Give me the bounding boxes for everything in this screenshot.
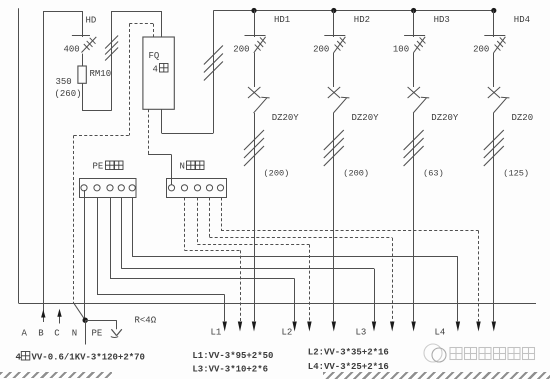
breaker blade HD1 xyxy=(254,97,270,113)
wire: HD switch stem xyxy=(82,11,84,37)
node HD1 bus tap xyxy=(251,8,256,13)
svg-text:DZ20: DZ20 xyxy=(512,113,534,123)
svg-text:L2:VV-3*35+2*16: L2:VV-3*35+2*16 xyxy=(308,347,389,357)
conductor slashes HD3 xyxy=(404,130,424,166)
svg-text:FQ: FQ xyxy=(149,51,160,61)
label DZ20 xyxy=(512,113,534,123)
wire: HD2 stem upper xyxy=(333,11,335,38)
svg-text:N: N xyxy=(180,162,185,172)
svg-text:DZ20Y: DZ20Y xyxy=(431,113,459,123)
wire: HD3 feeder stem xyxy=(413,113,415,321)
svg-text:350: 350 xyxy=(56,77,72,87)
disconnect switch HD1 xyxy=(245,36,266,53)
label N xyxy=(72,329,77,339)
svg-text:C: C xyxy=(54,329,60,339)
PE wire to L4 xyxy=(132,198,460,332)
breaker blade HD3 xyxy=(413,97,429,113)
breaker blade HD2 xyxy=(333,97,349,113)
supply arrow C xyxy=(57,309,61,324)
svg-text:VV-0.6/1KV-3*120+2*70: VV-0.6/1KV-3*120+2*70 xyxy=(32,353,145,363)
feeder arrow HD4 xyxy=(492,322,496,332)
wire: bond to earth xyxy=(85,320,116,329)
breaker contact X HD4 xyxy=(488,87,500,98)
wire: phase B riser xyxy=(41,11,45,322)
svg-text:4: 4 xyxy=(153,65,158,75)
node HD2 bus tap xyxy=(331,8,336,13)
fuse RM10 xyxy=(78,66,86,83)
label B xyxy=(38,329,44,339)
wire: HD3 stem mid xyxy=(413,53,415,87)
cable spec L1 xyxy=(192,351,273,361)
svg-text:200: 200 xyxy=(233,45,249,55)
cable spec L3 xyxy=(192,364,268,374)
label HD xyxy=(86,16,97,26)
value 200 xyxy=(313,45,329,55)
svg-text:100: 100 xyxy=(393,45,409,55)
distribution box FQ xyxy=(143,37,174,109)
node HD3 bus tap xyxy=(411,8,416,13)
label L1 xyxy=(211,328,222,338)
value 200 xyxy=(473,45,489,55)
wire: FQ neutral to N busbar xyxy=(148,109,172,185)
label HD1 xyxy=(274,15,290,25)
wire: top-left box top segment xyxy=(43,11,82,13)
feeder arrow HD2 xyxy=(332,322,336,332)
wire: HD2 feeder stem xyxy=(333,113,335,321)
PE wire to L1 xyxy=(97,198,227,332)
label L3 xyxy=(356,328,367,338)
wire: HD3 stem upper xyxy=(413,11,415,38)
node HD4 bus tap xyxy=(491,8,496,13)
bus: main horizontal bus xyxy=(213,10,493,12)
N wire to L3 (dashed) xyxy=(210,198,395,332)
wire: switch to fuse xyxy=(82,54,84,66)
label DZ20Y xyxy=(272,113,300,123)
wire: enclosure bottom rail xyxy=(19,303,536,305)
svg-text:N: N xyxy=(72,329,77,339)
feeder arrow HD3 xyxy=(411,322,415,332)
svg-text:HD2: HD2 xyxy=(354,15,370,25)
svg-text:L3: L3 xyxy=(356,328,367,338)
conductor slashes HD4 xyxy=(484,130,504,166)
earth electrode symbol xyxy=(111,329,122,337)
wire: enclosure left border xyxy=(18,8,20,303)
value (125) xyxy=(503,169,529,179)
wire: HD2 stem mid xyxy=(333,53,335,87)
value 200 xyxy=(233,45,249,55)
svg-text:HD3: HD3 xyxy=(434,15,450,25)
disconnect switch HD xyxy=(72,36,96,53)
PE wire to L3 xyxy=(121,198,376,332)
wire: bond diagonal N-PE xyxy=(74,303,85,320)
label HD2 xyxy=(354,15,370,25)
watermark logo xyxy=(424,344,535,362)
svg-text:L3:VV-3*10+2*6: L3:VV-3*10+2*6 xyxy=(192,364,268,374)
label DZ20Y xyxy=(352,113,380,123)
busbar PE xyxy=(80,179,137,198)
wire: HD1 stem mid xyxy=(254,53,256,87)
svg-text:B: B xyxy=(38,329,44,339)
wire: dashed N conductor (FQ to bond) xyxy=(74,24,154,304)
label DZ20Y xyxy=(431,113,459,123)
label HD3 xyxy=(434,15,450,25)
svg-text:RM10: RM10 xyxy=(90,69,112,79)
feeder arrow HD1 xyxy=(252,322,256,332)
svg-text:DZ20Y: DZ20Y xyxy=(352,113,380,123)
svg-text:L1: L1 xyxy=(211,328,222,338)
svg-text:PE: PE xyxy=(93,162,104,172)
label L4 xyxy=(435,328,446,338)
label L2 xyxy=(282,328,293,338)
wire: FQ drop from top xyxy=(161,11,163,37)
value (200) xyxy=(343,169,369,179)
disconnect switch HD3 xyxy=(404,36,425,53)
conductor slashes (left riser) xyxy=(105,36,118,61)
svg-text:(200): (200) xyxy=(264,169,290,179)
N wire to L4 (dashed) xyxy=(221,198,481,332)
wire: HD1 stem upper xyxy=(254,11,256,38)
svg-text:R<4Ω: R<4Ω xyxy=(135,316,157,326)
svg-text:DZ20Y: DZ20Y xyxy=(272,113,300,123)
svg-text:L2: L2 xyxy=(282,328,293,338)
svg-text:(125): (125) xyxy=(503,169,529,179)
label C xyxy=(54,329,60,339)
value (63) xyxy=(423,169,444,179)
value 400 xyxy=(64,45,80,55)
N wire to L2 (dashed) xyxy=(198,198,312,332)
value (260) xyxy=(55,89,82,99)
value 100 xyxy=(393,45,409,55)
wire: HD4 stem mid xyxy=(493,53,495,87)
disconnect switch HD4 xyxy=(484,36,505,53)
svg-text:HD: HD xyxy=(86,16,97,26)
wire: HD4 stem upper xyxy=(493,11,495,38)
N wire to L1 (dashed) xyxy=(185,198,243,332)
wire: FQ to bus riser xyxy=(162,11,214,134)
busbar N xyxy=(167,179,227,198)
svg-text:HD4: HD4 xyxy=(514,15,530,25)
breaker contact X HD1 xyxy=(248,87,260,98)
label A xyxy=(22,329,28,339)
wire: PE riser to bond xyxy=(84,190,86,320)
breaker contact X HD2 xyxy=(328,87,340,98)
PE wire to L2 xyxy=(110,198,297,332)
conductor slashes HD1 xyxy=(244,130,264,166)
label FQ xyxy=(149,51,160,61)
label HD4 xyxy=(514,15,530,25)
label N busbar xyxy=(180,161,205,172)
wire: HD4 feeder stem xyxy=(493,113,495,321)
node N-PE bond xyxy=(83,318,88,323)
svg-text:400: 400 xyxy=(64,45,80,55)
svg-text:4: 4 xyxy=(16,353,22,363)
value 350 xyxy=(56,77,72,87)
label PE busbar xyxy=(93,161,124,172)
breaker contact X HD3 xyxy=(408,87,420,98)
breaker blade HD4 xyxy=(493,97,509,113)
svg-text:L4:VV-3*25+2*16: L4:VV-3*25+2*16 xyxy=(308,362,389,372)
label PE xyxy=(92,329,103,339)
svg-text:A: A xyxy=(22,329,28,339)
disconnect switch HD2 xyxy=(324,36,345,53)
label RM10 xyxy=(90,69,112,79)
conductor slashes HD2 xyxy=(324,130,344,166)
wire: HD1 feeder stem xyxy=(254,113,256,321)
wire: fuse bottom loop xyxy=(82,11,162,111)
cable spec L4 xyxy=(308,362,389,372)
conductor slashes (bus riser) xyxy=(204,46,223,81)
value (200) xyxy=(264,169,290,179)
label R<4 xyxy=(135,316,157,326)
cable spec incoming xyxy=(16,352,145,363)
wire: earth tail xyxy=(85,320,87,344)
svg-text:(63): (63) xyxy=(423,169,444,179)
svg-text:PE: PE xyxy=(92,329,103,339)
svg-text:L1:VV-3*95+2*50: L1:VV-3*95+2*50 xyxy=(192,351,273,361)
label 4-pian xyxy=(153,64,169,75)
svg-text:HD1: HD1 xyxy=(274,15,290,25)
svg-text:L4: L4 xyxy=(435,328,446,338)
cable spec L2 xyxy=(308,347,389,357)
svg-text:(260): (260) xyxy=(55,89,82,99)
svg-text:200: 200 xyxy=(473,45,489,55)
svg-text:(200): (200) xyxy=(343,169,369,179)
svg-text:200: 200 xyxy=(313,45,329,55)
